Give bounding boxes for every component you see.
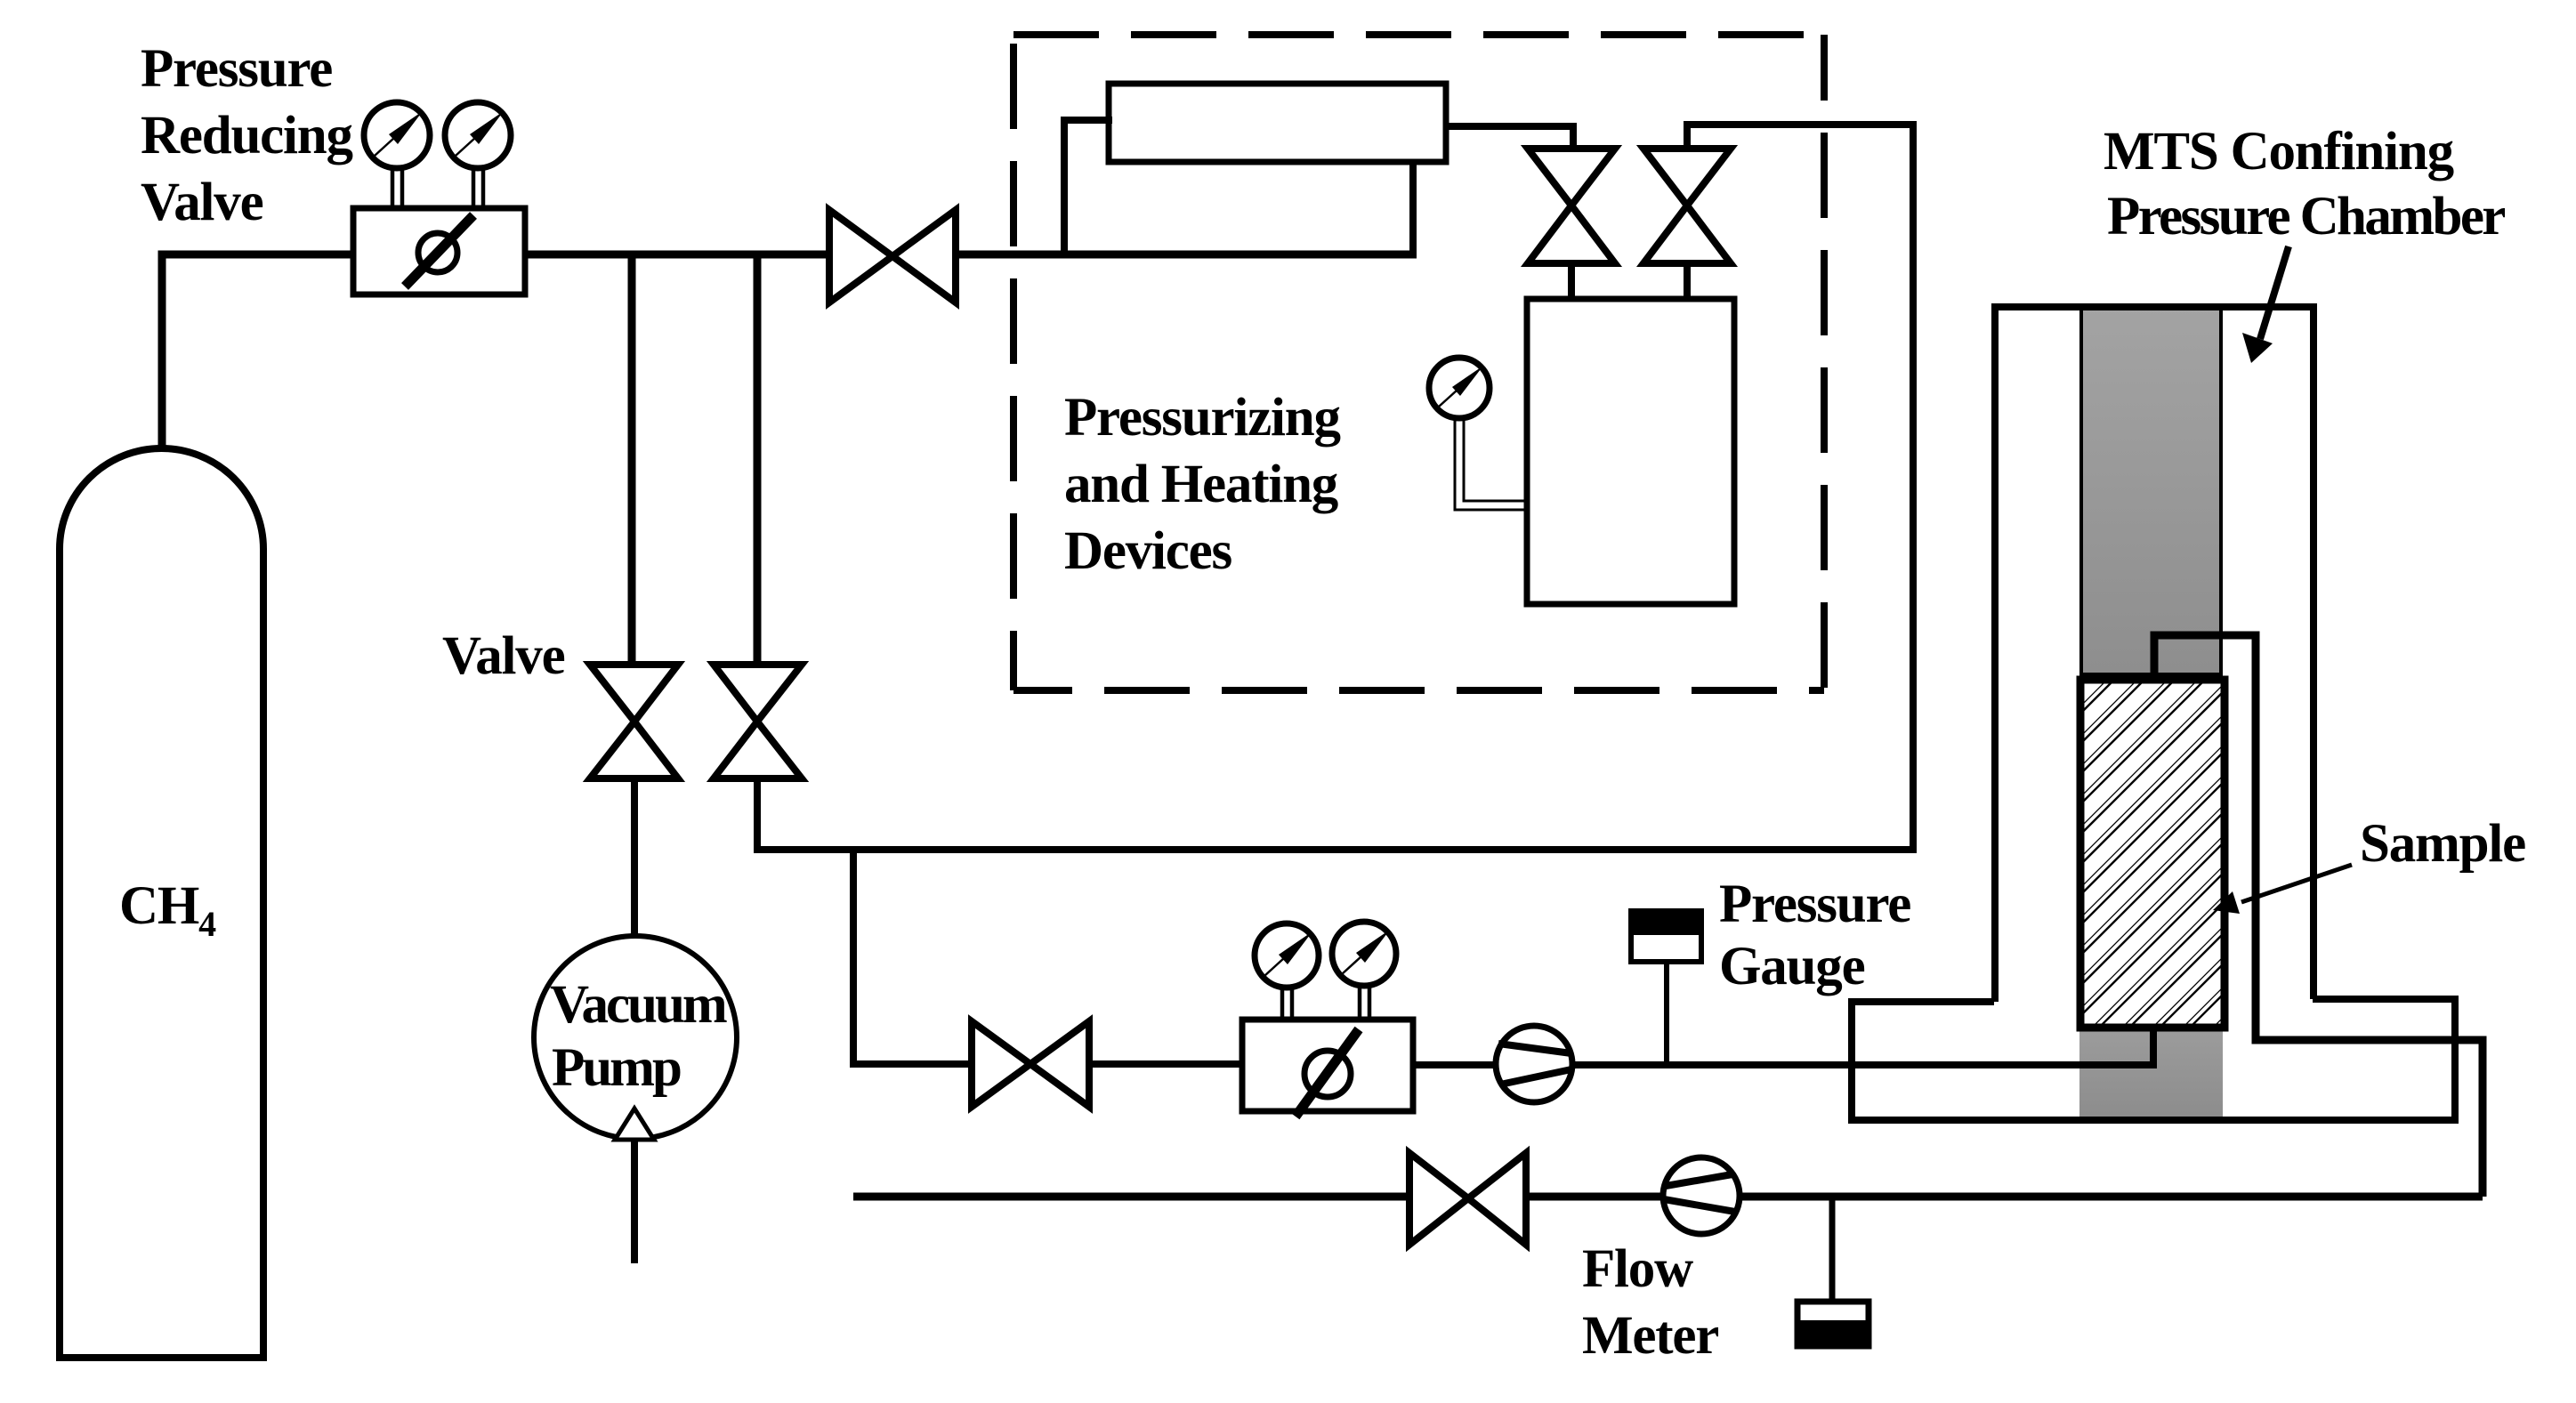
right Valve (vertical bowtie) <box>714 665 802 778</box>
chamber outer walls <box>1991 303 1999 1002</box>
bottom gauge symbol <box>1797 1302 1869 1346</box>
wire CH4 cylinder to pressure reducing valve <box>162 254 353 450</box>
PRV1 gauge 1 <box>364 102 430 168</box>
MTS label arrow <box>2260 246 2289 339</box>
flow meter symbol <box>1663 1157 1740 1234</box>
chamber pedestal <box>1852 999 2455 1120</box>
accumulator gauge stem (double line) <box>1455 416 1527 510</box>
svg-text:Reducing: Reducing <box>141 106 353 165</box>
accumulator gauge <box>1429 358 1490 418</box>
svg-text:Valve: Valve <box>442 626 565 686</box>
heater rectangle <box>1109 84 1446 162</box>
valve S1 stub to accumulator <box>1568 263 1575 301</box>
svg-text:MTS Confining: MTS Confining <box>2104 122 2454 181</box>
lower pipe pump to chamber <box>1571 1061 2153 1068</box>
accumulator vessel <box>1527 299 1734 604</box>
left Valve (vertical bowtie) <box>590 665 678 778</box>
lower pipe PRV2 to pump <box>1413 1061 1498 1068</box>
valve S2 stub to accumulator <box>1684 263 1691 301</box>
svg-text:Pressure: Pressure <box>141 39 332 99</box>
sample outlet wire (step over piston, down right side, to bottom line) <box>2154 635 2483 1197</box>
main line PRV1 to valve <box>525 251 829 259</box>
svg-text:Pressure Chamber: Pressure Chamber <box>2107 187 2505 246</box>
PRV1 gauge stems <box>392 165 483 210</box>
bottom gas line <box>853 1193 1409 1201</box>
svg-text:Valve: Valve <box>141 173 263 232</box>
lower pipe step into sample bottom <box>2150 1025 2157 1068</box>
svg-text:Sample: Sample <box>2360 814 2525 874</box>
PRV2 gauge 2 <box>1332 922 1396 986</box>
PRV1 regulator symbol <box>405 215 473 286</box>
lower-line valve (horizontal bowtie) <box>972 1021 1089 1107</box>
bottom-line valve (horizontal bowtie) <box>1409 1153 1526 1245</box>
PRV2 gauge 1 <box>1255 923 1319 988</box>
svg-text:Devices: Devices <box>1064 521 1232 581</box>
svg-text:Gauge: Gauge <box>1719 937 1865 996</box>
dashed-box valve S2 (vertical bowtie) <box>1643 149 1731 263</box>
CH4 gas cylinder <box>60 448 263 1358</box>
wire below vacuum pump <box>631 1140 638 1263</box>
pressure reducing valve PRV1 body <box>353 208 525 294</box>
main-line valve (horizontal bowtie) <box>829 210 956 302</box>
rock sample (hatched) <box>2080 680 2225 1028</box>
svg-text:Flow: Flow <box>1582 1239 1693 1299</box>
dashed enclosure: Pressurizing and Heating Devices <box>1013 35 1824 690</box>
vacuum pump <box>534 936 737 1140</box>
lower pipe valve to PRV2 <box>1089 1060 1242 1068</box>
branch wire down to right Valve <box>754 254 762 665</box>
PRV2 gauge stems <box>1282 984 1369 1021</box>
pressure gauge symbol <box>1628 908 1704 1064</box>
branch wire down to left Valve <box>628 254 636 665</box>
pressure reducing valve PRV2 body <box>1242 1020 1413 1111</box>
wire heater bottom to main line <box>1409 160 1417 254</box>
PRV2 regulator symbol <box>1296 1029 1359 1117</box>
branch down to lower gas line <box>853 847 975 1064</box>
svg-text:Pressure: Pressure <box>1719 875 1910 934</box>
wire heater right to valve S1 <box>1446 126 1573 152</box>
svg-text:Pressurizing: Pressurizing <box>1064 388 1340 448</box>
chamber bottom gray block <box>2079 1028 2223 1120</box>
return loop: right valve down, right, up riser, left to dashed-box valve S2 <box>757 125 1913 850</box>
pump / transfer symbol <box>1496 1026 1572 1102</box>
svg-text:Pump: Pump <box>552 1038 681 1098</box>
svg-text:Meter: Meter <box>1582 1306 1718 1366</box>
MTS chamber gray piston <box>2081 307 2221 674</box>
PRV1 gauge 2 <box>445 102 511 168</box>
wire main line up to heater left <box>1064 120 1112 254</box>
bottom gauge stem <box>1829 1197 1836 1302</box>
svg-text:Vacuum: Vacuum <box>550 975 727 1035</box>
svg-text:and Heating: and Heating <box>1064 455 1338 514</box>
wire left valve to vacuum pump <box>631 778 638 937</box>
Sample label arrow <box>2241 865 2352 902</box>
main line valve to heater riser <box>956 251 1417 259</box>
dashed-box valve S1 (vertical bowtie) <box>1528 149 1615 263</box>
